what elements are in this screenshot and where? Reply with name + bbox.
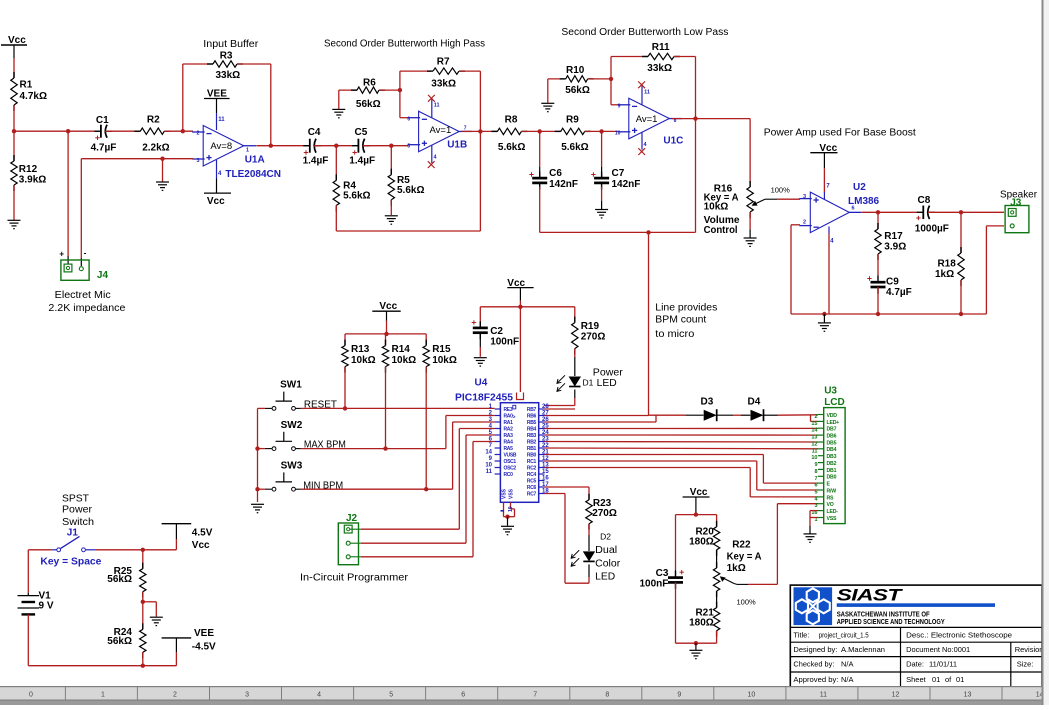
svg-text:4: 4	[317, 692, 321, 699]
svg-text:5.6kΩ: 5.6kΩ	[498, 142, 525, 153]
svg-text:11: 11	[486, 469, 493, 475]
svg-text:R11: R11	[652, 42, 670, 53]
svg-text:12: 12	[892, 692, 900, 699]
svg-text:R13: R13	[351, 344, 370, 355]
svg-text:Input Buffer: Input Buffer	[203, 39, 259, 50]
svg-text:142nF: 142nF	[612, 179, 641, 190]
svg-text:Av=1: Av=1	[430, 125, 452, 136]
svg-text:DB4: DB4	[827, 447, 837, 453]
svg-text:R8: R8	[505, 115, 518, 126]
svg-text:11: 11	[820, 692, 827, 699]
svg-text:R/W: R/W	[827, 488, 837, 494]
svg-text:RB7: RB7	[527, 407, 537, 413]
svg-text:RC1: RC1	[527, 459, 537, 465]
svg-text:9 V: 9 V	[39, 601, 54, 612]
svg-text:R23: R23	[593, 498, 612, 509]
svg-text:C1: C1	[96, 115, 109, 126]
svg-text:Key = Space: Key = Space	[40, 557, 101, 568]
svg-text:C7: C7	[612, 168, 625, 179]
svg-text:Power Amp used For Base Boost: Power Amp used For Base Boost	[764, 128, 916, 139]
svg-text:270Ω: 270Ω	[592, 508, 617, 519]
svg-text:VEE: VEE	[194, 628, 214, 639]
svg-text:2: 2	[814, 414, 817, 420]
svg-text:U1A: U1A	[245, 155, 265, 166]
svg-text:RB2: RB2	[527, 440, 537, 446]
svg-text:10: 10	[748, 692, 756, 699]
svg-text:1.4µF: 1.4µF	[349, 156, 375, 167]
svg-text:RB3: RB3	[527, 433, 537, 439]
svg-text:RC4: RC4	[527, 472, 537, 478]
svg-text:-: -	[84, 249, 87, 258]
svg-text:RC2: RC2	[527, 466, 537, 472]
svg-text:3: 3	[803, 194, 806, 200]
svg-text:R10: R10	[566, 65, 585, 76]
svg-text:4.7µF: 4.7µF	[886, 287, 912, 298]
svg-text:RS: RS	[827, 495, 835, 501]
svg-text:DB5: DB5	[827, 440, 837, 446]
svg-text:D4: D4	[748, 397, 761, 408]
svg-text:R7: R7	[437, 56, 450, 67]
svg-text:180Ω: 180Ω	[689, 617, 714, 628]
svg-text:Second Order Butterworth Low P: Second Order Butterworth Low Pass	[561, 27, 728, 38]
svg-text:Second Order Butterworth High: Second Order Butterworth High Pass	[324, 39, 485, 50]
svg-text:J1: J1	[67, 528, 79, 539]
svg-text:TLE2084CN: TLE2084CN	[225, 169, 281, 180]
svg-text:5: 5	[389, 692, 393, 699]
svg-text:9: 9	[618, 104, 621, 110]
svg-text:LED-: LED-	[827, 509, 839, 515]
svg-text:SW1: SW1	[280, 380, 302, 391]
svg-text:DB7: DB7	[827, 427, 837, 433]
svg-text:7: 7	[464, 126, 467, 132]
svg-text:of: of	[945, 675, 952, 684]
svg-text:VSS: VSS	[509, 488, 515, 499]
svg-text:VSS: VSS	[827, 516, 838, 522]
svg-text:6: 6	[814, 483, 817, 489]
svg-text:RA2: RA2	[504, 427, 514, 433]
svg-text:10kΩ: 10kΩ	[704, 201, 729, 212]
svg-text:SW2: SW2	[281, 420, 303, 431]
svg-text:33kΩ: 33kΩ	[216, 70, 241, 81]
svg-text:2.2K impedance: 2.2K impedance	[48, 303, 125, 314]
svg-text:OSC2: OSC2	[504, 466, 517, 472]
svg-text:100nF: 100nF	[639, 579, 668, 590]
svg-text:2: 2	[803, 220, 806, 226]
svg-text:1000µF: 1000µF	[915, 224, 949, 235]
svg-text:Document No:0001: Document No:0001	[906, 645, 970, 654]
svg-text:Designed by:: Designed by:	[793, 645, 837, 654]
svg-text:-4.5V: -4.5V	[192, 642, 216, 653]
svg-text:11: 11	[812, 448, 818, 454]
svg-text:>: >	[513, 415, 516, 421]
svg-text:RA5: RA5	[504, 446, 514, 452]
svg-text:C8: C8	[918, 195, 931, 206]
svg-text:U2: U2	[853, 182, 866, 193]
svg-text:BPM count: BPM count	[655, 315, 706, 326]
svg-text:J3: J3	[1010, 197, 1022, 208]
svg-text:LED: LED	[597, 378, 617, 389]
svg-text:11: 11	[434, 103, 440, 109]
svg-text:15: 15	[542, 469, 549, 475]
svg-text:10: 10	[811, 455, 817, 461]
svg-text:Av=1: Av=1	[636, 114, 658, 125]
svg-text:R12: R12	[19, 164, 38, 175]
svg-text:Sheet: Sheet	[906, 675, 927, 684]
svg-text:RA1: RA1	[504, 420, 514, 426]
svg-text:13: 13	[811, 435, 817, 441]
svg-text:9: 9	[814, 462, 817, 468]
svg-text:D2: D2	[600, 532, 611, 542]
svg-text:R9: R9	[566, 115, 579, 126]
svg-text:RB0: RB0	[527, 453, 537, 459]
svg-text:SIAST: SIAST	[837, 586, 904, 605]
svg-text:R19: R19	[581, 321, 600, 332]
svg-text:RC0: RC0	[504, 472, 514, 478]
svg-text:1.4µF: 1.4µF	[303, 156, 329, 167]
svg-text:Key = A: Key = A	[727, 551, 762, 562]
svg-text:Desc.: Electronic Stethoscope: Desc.: Electronic Stethoscope	[906, 630, 1012, 639]
svg-text:142nF: 142nF	[549, 179, 578, 190]
svg-text:Control: Control	[704, 225, 738, 236]
svg-text:VDD: VDD	[827, 413, 838, 419]
svg-text:D1: D1	[583, 377, 594, 387]
svg-text:3.9Ω: 3.9Ω	[884, 241, 906, 252]
svg-text:C5: C5	[355, 127, 368, 138]
svg-text:100%: 100%	[737, 598, 757, 607]
svg-text:2: 2	[173, 692, 177, 699]
svg-text:SW3: SW3	[281, 460, 303, 471]
svg-text:Revision: Revision	[1015, 645, 1044, 654]
svg-text:R18: R18	[937, 259, 956, 270]
svg-text:56kΩ: 56kΩ	[107, 574, 132, 585]
svg-text:R1: R1	[20, 80, 33, 91]
svg-text:APPLIED SCIENCE AND TECHNOLOGY: APPLIED SCIENCE AND TECHNOLOGY	[837, 617, 945, 626]
svg-text:33kΩ: 33kΩ	[431, 79, 456, 90]
svg-text:VO: VO	[827, 502, 834, 508]
svg-text:5: 5	[407, 144, 410, 150]
svg-text:Power: Power	[593, 367, 624, 378]
svg-text:Color: Color	[595, 558, 621, 569]
svg-text:10kΩ: 10kΩ	[392, 355, 417, 366]
svg-text:D3: D3	[701, 397, 714, 408]
svg-text:Vcc: Vcc	[207, 196, 225, 207]
svg-text:Checked by:: Checked by:	[793, 660, 834, 669]
svg-text:DB6: DB6	[827, 434, 837, 440]
svg-text:C3: C3	[656, 568, 669, 579]
svg-text:Vcc: Vcc	[192, 540, 210, 551]
svg-text:R3: R3	[220, 50, 233, 61]
svg-text:RC5: RC5	[527, 479, 537, 485]
svg-text:14: 14	[485, 450, 492, 456]
svg-text:R2: R2	[147, 115, 160, 126]
svg-text:DB1: DB1	[827, 468, 837, 474]
svg-text:RB4: RB4	[527, 427, 537, 433]
svg-text:U1B: U1B	[447, 140, 467, 151]
svg-text:OSC1: OSC1	[504, 459, 517, 465]
svg-text:Line provides: Line provides	[655, 303, 717, 314]
svg-text:56kΩ: 56kΩ	[565, 85, 590, 96]
svg-text:100nF: 100nF	[490, 337, 519, 348]
svg-text:N/A: N/A	[841, 660, 854, 669]
svg-text:10: 10	[485, 463, 492, 469]
svg-text:RA3: RA3	[504, 433, 514, 439]
svg-text:1: 1	[101, 692, 105, 699]
svg-text:16: 16	[542, 476, 549, 482]
svg-text:5.6kΩ: 5.6kΩ	[561, 142, 588, 153]
svg-text:9: 9	[677, 692, 681, 699]
svg-text:DB3: DB3	[827, 454, 837, 460]
svg-text:Approved by:: Approved by:	[793, 675, 838, 684]
svg-text:A.Maclennan: A.Maclennan	[841, 645, 885, 654]
svg-text:13: 13	[964, 692, 972, 699]
svg-text:In-Circuit Programmer: In-Circuit Programmer	[300, 572, 409, 583]
svg-text:U3: U3	[824, 386, 837, 397]
svg-text:to micro: to micro	[655, 329, 694, 340]
svg-text:N/A: N/A	[841, 675, 854, 684]
svg-text:01: 01	[956, 675, 964, 684]
svg-text:VSS: VSS	[502, 488, 508, 499]
svg-text:DB0: DB0	[827, 475, 837, 481]
svg-text:56kΩ: 56kΩ	[107, 636, 132, 647]
svg-text:RC7: RC7	[527, 492, 537, 498]
svg-text:0: 0	[29, 692, 33, 699]
svg-text:2.2kΩ: 2.2kΩ	[142, 143, 169, 154]
svg-text:+: +	[59, 250, 64, 259]
svg-text:C6: C6	[549, 168, 562, 179]
svg-text:SPST: SPST	[62, 494, 89, 505]
svg-text:3: 3	[197, 158, 200, 164]
svg-text:01: 01	[932, 675, 940, 684]
svg-text:15: 15	[811, 421, 817, 427]
svg-text:U4: U4	[475, 378, 488, 389]
svg-text:4.7µF: 4.7µF	[91, 143, 117, 154]
svg-text:RB5: RB5	[527, 420, 537, 426]
svg-text:RB6: RB6	[527, 414, 537, 420]
svg-text:6: 6	[407, 117, 410, 123]
svg-text:3: 3	[245, 692, 249, 699]
svg-text:11: 11	[644, 90, 650, 96]
svg-text:8: 8	[814, 469, 817, 475]
svg-text:LED+: LED+	[827, 420, 840, 426]
svg-text:C9: C9	[886, 277, 899, 288]
svg-text:Vcc: Vcc	[379, 301, 397, 312]
svg-text:4.7kΩ: 4.7kΩ	[20, 91, 47, 102]
svg-text:VUSB: VUSB	[504, 453, 517, 459]
svg-text:R14: R14	[392, 344, 411, 355]
svg-text:R15: R15	[432, 344, 451, 355]
svg-text:C2: C2	[490, 326, 503, 337]
svg-text:Power: Power	[62, 505, 93, 516]
svg-text:5.6kΩ: 5.6kΩ	[397, 185, 424, 196]
svg-text:5: 5	[814, 490, 817, 496]
svg-text:Switch: Switch	[62, 517, 94, 528]
svg-text:10kΩ: 10kΩ	[351, 355, 376, 366]
svg-text:56kΩ: 56kΩ	[356, 99, 381, 110]
svg-text:R22: R22	[732, 540, 751, 551]
svg-text:RE3: RE3	[504, 407, 513, 413]
svg-text:11/01/11: 11/01/11	[929, 660, 957, 669]
svg-text:12: 12	[811, 442, 817, 448]
svg-text:RB1: RB1	[527, 446, 537, 452]
svg-text:6: 6	[852, 206, 855, 212]
svg-text:180Ω: 180Ω	[689, 537, 714, 548]
svg-text:Title:: Title:	[793, 630, 809, 639]
svg-text:100%: 100%	[771, 186, 791, 195]
svg-text:4.5V: 4.5V	[192, 528, 213, 539]
svg-text:RA4: RA4	[504, 440, 514, 446]
svg-text:1kΩ: 1kΩ	[727, 563, 746, 574]
svg-text:14: 14	[811, 428, 818, 434]
svg-text:8: 8	[605, 692, 609, 699]
svg-text:LCD: LCD	[824, 397, 845, 408]
svg-text:J4: J4	[97, 270, 109, 281]
svg-text:LED: LED	[595, 572, 615, 583]
svg-text:1: 1	[246, 148, 249, 154]
svg-text:11: 11	[218, 117, 225, 123]
svg-text:RC6: RC6	[527, 485, 537, 491]
svg-text:270Ω: 270Ω	[581, 332, 606, 343]
svg-text:Av=8: Av=8	[210, 141, 232, 152]
svg-text:Dual: Dual	[595, 545, 617, 556]
svg-text:5.6kΩ: 5.6kΩ	[343, 191, 370, 202]
svg-text:2: 2	[197, 131, 200, 137]
svg-text:6: 6	[461, 692, 465, 699]
svg-text:10: 10	[615, 131, 621, 137]
svg-text:19: 19	[508, 506, 514, 512]
svg-text:1kΩ: 1kΩ	[935, 269, 954, 280]
svg-text:33kΩ: 33kΩ	[647, 63, 672, 74]
svg-text:Date:: Date:	[906, 660, 924, 669]
svg-text:10kΩ: 10kΩ	[432, 355, 457, 366]
svg-text:U1C: U1C	[663, 136, 683, 147]
svg-text:Electret Mic: Electret Mic	[55, 290, 111, 301]
svg-text:3: 3	[814, 503, 817, 509]
svg-text:project_circuit_1.5: project_circuit_1.5	[819, 630, 869, 639]
svg-text:DB2: DB2	[827, 461, 837, 467]
svg-text:7: 7	[533, 692, 537, 699]
svg-text:R6: R6	[363, 77, 376, 88]
svg-text:7: 7	[814, 476, 817, 482]
svg-text:Size:: Size:	[1017, 660, 1034, 669]
svg-text:3.9kΩ: 3.9kΩ	[19, 175, 46, 186]
svg-text:C4: C4	[308, 127, 321, 138]
